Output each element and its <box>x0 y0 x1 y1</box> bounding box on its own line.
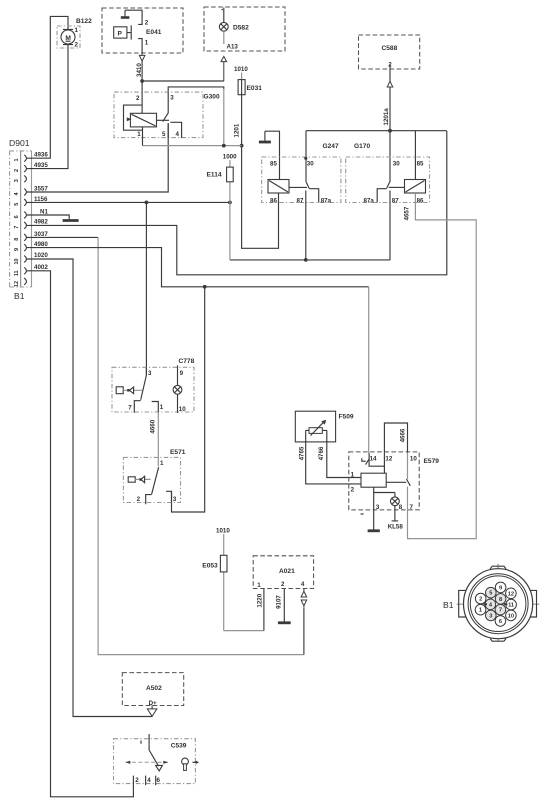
svg-text:1201a: 1201a <box>383 108 390 126</box>
B1 centerline dark segments <box>484 603 508 605</box>
wire 4980 drop to E579-14 <box>368 287 370 453</box>
C778 pin 1 hook <box>152 402 159 413</box>
E579 body to pin 3 lead <box>374 487 395 510</box>
E579 minus mark <box>361 513 364 515</box>
svg-text:D901: D901 <box>9 138 30 148</box>
pump motor B122 <box>57 18 92 48</box>
svg-text:3: 3 <box>173 496 177 503</box>
svg-text:5: 5 <box>489 591 492 597</box>
wire 3557 D901-4 to G300-5 <box>27 123 168 192</box>
B1 pin 3 <box>486 610 497 621</box>
C539 mech arrow right <box>163 761 168 764</box>
wire N1 D901-6 to ground <box>27 215 69 219</box>
B1 pin 1 <box>475 604 486 615</box>
switch C778 <box>112 358 195 412</box>
svg-text:4: 4 <box>176 131 180 138</box>
E041 pin 1 hook <box>138 39 142 53</box>
wire E571-3 branch riser <box>172 287 205 512</box>
D582 pin tick top <box>222 8 224 23</box>
wire 4982 D901-7 to relay feed node <box>27 131 447 275</box>
svg-text:KL58: KL58 <box>388 524 404 531</box>
svg-text:3037: 3037 <box>34 231 48 238</box>
svg-text:E571: E571 <box>170 449 186 456</box>
G170 elbow to 87a <box>377 189 386 203</box>
C539 pin 2 tick <box>132 776 134 784</box>
E579 lamp KL58 <box>391 493 400 506</box>
junction dot 1156/E114 <box>228 201 232 205</box>
svg-text:8: 8 <box>399 504 403 511</box>
D901 pin 11 socket <box>24 267 26 274</box>
svg-text:1000: 1000 <box>223 153 237 160</box>
svg-text:7: 7 <box>499 608 502 614</box>
wire 4657 G170-86 to E579-7 <box>408 193 477 539</box>
svg-text:2: 2 <box>14 169 20 172</box>
svg-text:1: 1 <box>14 158 20 161</box>
svg-text:2: 2 <box>351 486 355 493</box>
svg-text:P: P <box>118 31 123 38</box>
control unit A021 <box>253 556 313 589</box>
bus E114/87 contacts <box>230 259 390 261</box>
ground A021-2 <box>278 621 291 624</box>
svg-text:3557: 3557 <box>34 185 48 192</box>
G247 pin 87 wire to bus <box>305 191 307 260</box>
B1 pin 2 <box>475 593 486 604</box>
svg-text:E041: E041 <box>146 29 162 36</box>
fuse E114 <box>207 160 234 260</box>
wire 1020 D901-10 to A502 D+ <box>27 259 152 717</box>
svg-text:4765: 4765 <box>298 446 305 460</box>
E579 pin 12 internal lead <box>383 453 385 474</box>
fuse E031 <box>238 73 262 146</box>
svg-text:E114: E114 <box>207 171 222 178</box>
net G300 pins 1,3 (gray) <box>143 88 242 146</box>
C778 actuator <box>116 387 142 394</box>
junction dot G247-30 at box edge <box>304 157 307 160</box>
G300 coil bracket <box>124 105 143 130</box>
E579 internal contact arm <box>406 479 410 486</box>
connector triangle below E041 pin 1 <box>139 53 145 61</box>
svg-text:1156: 1156 <box>34 196 48 203</box>
junction dot 1201a node <box>388 129 392 133</box>
svg-text:7: 7 <box>128 405 132 412</box>
G170 coil <box>405 180 426 194</box>
svg-text:2: 2 <box>137 496 141 503</box>
B1 pin 7 <box>495 604 506 615</box>
svg-text:1020: 1020 <box>34 252 48 259</box>
wire 3410 E041-1 to node <box>141 61 143 92</box>
wire 3037 riser to A021-4 <box>303 608 305 655</box>
svg-text:8: 8 <box>499 597 502 603</box>
D901 pin 8 socket <box>24 234 26 241</box>
G247 link coil-arm <box>289 186 307 188</box>
svg-text:F509: F509 <box>339 414 354 421</box>
svg-text:E579: E579 <box>424 458 440 465</box>
D901 pin numbers 1-12 <box>14 158 20 287</box>
svg-text:3: 3 <box>170 94 174 101</box>
svg-text:4657: 4657 <box>404 206 411 220</box>
pressure switch E041 <box>102 8 183 53</box>
svg-text:30: 30 <box>307 161 314 168</box>
svg-text:3: 3 <box>489 613 492 619</box>
G300 pin 2 wire into coil <box>141 92 143 113</box>
junction dot 1156/C778 branch <box>145 201 149 205</box>
svg-text:8: 8 <box>14 238 20 241</box>
svg-text:2: 2 <box>75 42 79 49</box>
E571 actuator <box>128 476 150 483</box>
junction dot 3410 node <box>140 79 144 83</box>
wire 4666 E579-12 to E579-10 <box>384 423 407 453</box>
D901 pin 6 socket <box>24 212 26 219</box>
warning lamp D582 <box>204 7 285 51</box>
svg-text:G247: G247 <box>323 143 339 150</box>
svg-text:9: 9 <box>180 370 184 377</box>
svg-text:1220: 1220 <box>256 593 263 607</box>
svg-text:3: 3 <box>148 370 152 377</box>
G300 pin 1 wire <box>142 127 144 146</box>
D901 pin 12 socket <box>24 278 26 285</box>
svg-text:86: 86 <box>270 197 277 204</box>
svg-text:A021: A021 <box>279 568 295 575</box>
svg-text:10: 10 <box>14 258 20 264</box>
C539 pin 1 ticks top <box>141 734 149 744</box>
alternator A502 <box>122 673 183 706</box>
svg-text:3: 3 <box>14 179 20 182</box>
svg-text:6: 6 <box>157 777 161 784</box>
svg-text:4: 4 <box>147 777 151 784</box>
C539 right edge tick <box>192 761 198 763</box>
wire 1220 A021-1 to E053 <box>263 589 265 631</box>
svg-text:9107: 9107 <box>276 595 283 609</box>
relay G170 <box>346 143 430 203</box>
B1 outer ring <box>464 569 533 639</box>
relay G247 <box>262 143 341 203</box>
svg-text:87a: 87a <box>321 197 332 204</box>
E579 contact glyph at pin 14 <box>362 458 370 464</box>
junction dot 1201/G300 net <box>240 144 244 148</box>
wire 3037 vertical run to A021 <box>98 237 304 654</box>
D582 lamp symbol <box>219 22 228 31</box>
A502 D+ lead <box>151 706 153 709</box>
svg-text:11: 11 <box>508 603 514 609</box>
relay G300 <box>114 92 220 138</box>
C778 pin 7 elbow <box>134 401 140 413</box>
svg-text:85: 85 <box>417 161 424 168</box>
C539 arm triangle <box>156 765 163 771</box>
svg-text:4935: 4935 <box>34 162 48 169</box>
B1 pin 9 <box>495 582 506 593</box>
C539 pin 6 tick <box>155 776 157 786</box>
G300 link coil to arm <box>157 119 170 121</box>
E579 pin 14 internal link <box>369 453 384 467</box>
svg-text:4660: 4660 <box>150 419 157 433</box>
D582 lamp lower lead <box>223 31 225 44</box>
svg-text:12: 12 <box>508 591 514 597</box>
B1 side tab left <box>459 590 466 617</box>
C539 pin 4 tick <box>145 776 147 786</box>
connector triangle 1201a <box>387 81 393 87</box>
connector face B1 <box>443 564 539 642</box>
svg-text:4766: 4766 <box>318 446 325 460</box>
D901 pin 9 socket <box>24 244 26 251</box>
C539 mech arrow left <box>126 761 131 764</box>
B1 pin 8 <box>495 594 506 605</box>
wire C778-3 branch <box>145 202 147 375</box>
svg-text:B122: B122 <box>76 18 92 25</box>
G170 link coil-arm <box>389 186 405 188</box>
wire 1201 E031 to G247-86 <box>242 146 279 249</box>
E579 pin 7 internal lead <box>407 487 409 510</box>
D901 pin 10 socket <box>24 256 26 263</box>
svg-text:1: 1 <box>160 404 164 411</box>
svg-text:9: 9 <box>14 248 20 251</box>
B1 pin 4 <box>485 599 496 610</box>
svg-text:87: 87 <box>392 197 399 204</box>
svg-text:1: 1 <box>145 39 149 46</box>
D901 pin 1 socket <box>24 155 26 162</box>
svg-text:1010: 1010 <box>234 66 248 73</box>
svg-text:7: 7 <box>14 226 20 229</box>
svg-text:10: 10 <box>410 455 417 462</box>
wire G300-3 top run <box>168 87 224 92</box>
E579 pin 10 internal lead <box>407 453 409 479</box>
wire 4766 F509 to E579-1 <box>327 430 361 477</box>
G300 contact arm pin3 <box>163 92 168 122</box>
svg-text:12: 12 <box>14 281 20 287</box>
svg-text:4666: 4666 <box>399 428 406 442</box>
C539 mech dashed link <box>126 761 169 763</box>
svg-text:C778: C778 <box>179 358 195 365</box>
wire 1201a C588 to G170-30 <box>389 87 391 182</box>
ignition switch C539 <box>114 739 196 784</box>
svg-text:N1: N1 <box>40 208 48 215</box>
E571 contact arm <box>152 467 159 494</box>
wire 1156 D901-5 to fuse E114 <box>27 201 230 203</box>
svg-text:87a: 87a <box>364 197 375 204</box>
C539 key symbol <box>182 758 189 770</box>
E579 internal link body to contact <box>386 481 406 483</box>
B1 pin 12 <box>506 588 517 599</box>
connector triangle A13 <box>221 56 227 81</box>
C778 pin 10 lead <box>177 394 179 413</box>
svg-text:7: 7 <box>410 504 414 511</box>
wire 9107 A021-2 to ground <box>283 589 285 622</box>
B1 top tab <box>490 566 506 569</box>
connector C588 <box>359 35 420 69</box>
G170 contact arm <box>387 182 390 189</box>
G300 bracket arrow <box>127 117 132 121</box>
wire 4002 D901-11 to C539-2 <box>27 271 134 797</box>
B1 crosshair <box>457 564 540 642</box>
ground symbol left of G247 <box>264 131 266 141</box>
svg-text:6: 6 <box>499 619 502 625</box>
svg-text:A13: A13 <box>227 43 239 50</box>
B1 pin 10 <box>506 610 517 621</box>
svg-text:14: 14 <box>370 455 377 462</box>
wire node 30-feed rail <box>306 131 447 182</box>
junction dot G300-3 branch <box>222 144 226 148</box>
svg-text:1: 1 <box>75 27 79 34</box>
svg-text:12: 12 <box>385 455 392 462</box>
svg-text:D+: D+ <box>149 700 157 707</box>
svg-text:87: 87 <box>297 197 304 204</box>
B1 inner rings <box>468 574 528 634</box>
svg-text:B1: B1 <box>443 600 454 610</box>
D901 pin 5 socket <box>24 199 26 206</box>
junction dot 4980/E571-3 branch <box>203 285 207 289</box>
D901 pin 4 socket <box>24 189 26 196</box>
G247 elbow to 87a <box>309 189 319 203</box>
connector D901 <box>9 138 32 287</box>
svg-text:G170: G170 <box>354 143 370 150</box>
B1 side tab right <box>531 590 537 617</box>
C778 contact arm <box>141 367 147 400</box>
ground inside E041 <box>124 10 126 16</box>
E579 internal relay body <box>361 473 386 487</box>
svg-text:D582: D582 <box>233 25 249 32</box>
wire 4765 F509 to E579-2 <box>306 430 361 484</box>
E571 pin 2 elbow <box>146 495 152 505</box>
E041 internal wire ground to pin 2 <box>125 10 142 24</box>
svg-text:6: 6 <box>14 215 20 218</box>
terminal KL58 stub <box>392 506 399 521</box>
svg-text:5: 5 <box>162 131 166 138</box>
svg-text:86: 86 <box>417 197 424 204</box>
svg-text:4936: 4936 <box>34 152 48 159</box>
svg-text:1201: 1201 <box>234 123 241 137</box>
svg-text:4982: 4982 <box>34 218 48 225</box>
switch E571 <box>123 449 185 503</box>
svg-text:2: 2 <box>136 95 140 102</box>
svg-text:4: 4 <box>301 581 305 588</box>
svg-text:10: 10 <box>179 406 186 413</box>
B1 pin 6 <box>495 616 506 627</box>
junction dot bus/G247-87 <box>304 258 308 262</box>
svg-text:2: 2 <box>479 597 482 603</box>
svg-text:1: 1 <box>160 460 164 467</box>
wire 3037 D901-8 horizontal <box>27 236 98 238</box>
svg-text:5: 5 <box>14 203 20 206</box>
svg-text:C539: C539 <box>171 743 187 750</box>
svg-text:G300: G300 <box>204 93 220 100</box>
svg-text:9: 9 <box>499 585 502 591</box>
svg-text:E031: E031 <box>247 85 263 92</box>
svg-text:B1: B1 <box>14 291 25 301</box>
wire 4936 D901-1 to B122-1 <box>27 16 68 158</box>
svg-text:1: 1 <box>257 582 261 589</box>
connector triangle A502 D+ <box>147 709 157 716</box>
G300 elbow to pin 4 <box>170 122 181 138</box>
wire node to A13 <box>142 80 224 82</box>
E041 P symbol <box>114 25 132 39</box>
B1 bottom tab <box>490 639 506 642</box>
wire 4935 D901-2 to B122-2 <box>27 44 68 169</box>
relay unit E579 <box>349 452 439 510</box>
C778 lamp symbol <box>173 385 182 394</box>
G247 contact arm <box>306 181 309 188</box>
svg-text:11: 11 <box>14 270 20 276</box>
svg-text:1: 1 <box>137 131 141 138</box>
svg-text:10: 10 <box>508 613 514 619</box>
temperature sensor F509 <box>295 411 354 442</box>
svg-text:30: 30 <box>393 161 400 168</box>
svg-text:2: 2 <box>145 19 149 26</box>
svg-text:C588: C588 <box>382 45 398 52</box>
C778 pin 9 lead <box>177 365 179 385</box>
D901 pin 7 socket <box>24 222 26 229</box>
wire ground to G247-85 <box>265 131 280 179</box>
G300 pin 5 wire <box>167 123 169 138</box>
svg-text:1: 1 <box>479 608 482 614</box>
svg-text:4002: 4002 <box>34 264 48 271</box>
svg-text:4980: 4980 <box>34 241 48 248</box>
D901 pin 3 socket <box>24 175 26 182</box>
G300 coil <box>130 113 156 127</box>
ground N1 <box>63 219 79 222</box>
connector triangles A021-4 <box>301 589 307 608</box>
B1 pin 11 <box>506 599 517 610</box>
C539 contact arm <box>149 744 159 766</box>
svg-text:1: 1 <box>351 471 355 478</box>
svg-text:85: 85 <box>270 161 277 168</box>
ground E579 pin 3 <box>373 510 375 530</box>
svg-text:A502: A502 <box>146 685 162 692</box>
C588 pin 2 lead <box>389 64 391 81</box>
svg-text:2: 2 <box>281 581 285 588</box>
svg-text:2: 2 <box>135 777 139 784</box>
fuse E053 <box>202 534 264 631</box>
wire 4980 D901-9 to E579-14 <box>27 248 369 287</box>
E571 pin 3 hook <box>166 491 171 502</box>
G170 pin 87 wire to bus <box>389 191 391 261</box>
svg-text:E053: E053 <box>202 563 218 570</box>
wire 4660 C778-1 to E571-1 <box>157 412 159 466</box>
svg-text:3: 3 <box>376 504 380 511</box>
B1 pin 5 <box>486 587 497 598</box>
D901 pin 2 socket <box>24 165 26 172</box>
svg-text:1010: 1010 <box>216 528 230 535</box>
G247 coil <box>268 180 289 194</box>
